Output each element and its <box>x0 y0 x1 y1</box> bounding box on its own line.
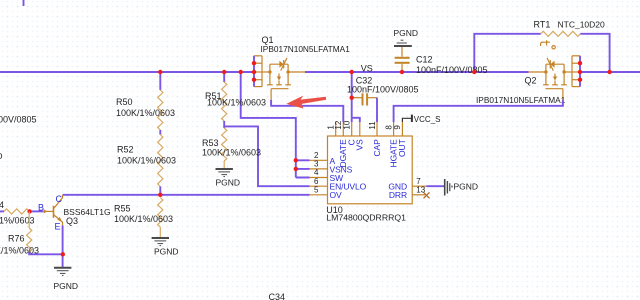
U10 top pin stubs <box>336 122 403 136</box>
transistor Q2 MOSFET body <box>529 64 572 100</box>
junction dot R52/R55 on OV net <box>158 193 162 197</box>
Q1 body arrow <box>277 77 281 81</box>
svg-text:100K/1%/0603: 100K/1%/0603 <box>202 148 261 158</box>
junction dot C12 <box>400 70 404 74</box>
svg-text:B: B <box>38 203 44 213</box>
svg-text:PGND: PGND <box>54 281 79 291</box>
resistor R55 <box>158 198 163 228</box>
junction dot R51 tap <box>222 70 226 74</box>
junction dots Q2 source pins <box>578 61 582 82</box>
U10 top pin numbers <box>327 120 403 129</box>
svg-text:OUT: OUT <box>397 139 407 157</box>
junction dot C32 left <box>350 96 354 100</box>
svg-text:100K/1%/0603: 100K/1%/0603 <box>116 108 175 118</box>
Q2 body diode <box>547 58 555 71</box>
svg-text:100K/1%/0603: 100K/1%/0603 <box>114 214 173 224</box>
svg-text:100nF/100V/0805: 100nF/100V/0805 <box>347 85 419 95</box>
transistor Q2 package bracket <box>572 56 580 87</box>
svg-text:E: E <box>55 222 61 232</box>
U10 top pin names <box>338 139 407 168</box>
U10 left pin numbers <box>314 151 319 194</box>
svg-text:8: 8 <box>384 125 393 130</box>
wire R76 to emitter net <box>29 252 63 254</box>
junction dot RT1 right <box>607 70 611 74</box>
wire sense net A/VSNS/SW from main line <box>241 72 310 178</box>
svg-text:100K/1%/0603: 100K/1%/0603 <box>207 98 266 108</box>
svg-text:100nF/100V/0805: 100nF/100V/0805 <box>0 114 37 124</box>
resistor R51 <box>222 82 227 121</box>
wire main to R51 <box>223 72 225 82</box>
power VCC_S on OUT pin <box>402 115 412 122</box>
RT1 thermistor t-degree mark <box>541 40 556 49</box>
wire R50 to R52 <box>159 130 161 135</box>
svg-text:CAP: CAP <box>372 139 382 157</box>
wire R52 to OV net <box>159 187 161 195</box>
wire GND pin to PGND bar <box>426 185 444 187</box>
junction dot base/R76 <box>27 209 31 213</box>
wire RT1 branch right riser <box>580 34 609 72</box>
svg-text:C12: C12 <box>416 54 433 64</box>
junction dots sense net <box>294 158 298 171</box>
wire R51-R53 junction and EN tap <box>224 121 309 186</box>
svg-text:VS: VS <box>361 63 373 73</box>
svg-text:11: 11 <box>368 121 377 130</box>
svg-text:IPB017N10N5LFATMA1: IPB017N10N5LFATMA1 <box>261 44 351 54</box>
wire Q1 drain to VS and C12, RT1 junction <box>305 71 529 73</box>
svg-text:10: 10 <box>343 120 352 129</box>
junction dots olive Q2 <box>544 70 566 73</box>
svg-text:R76: R76 <box>8 234 25 244</box>
Q3 emitter arrow <box>57 217 62 222</box>
wire HGATE from pin 8 to Q2 gate <box>394 100 563 122</box>
svg-text:RT1: RT1 <box>534 20 551 30</box>
svg-text:R55: R55 <box>114 204 131 214</box>
wire OV net from Q3 collector to pin 5 <box>63 194 310 196</box>
power PGND under R53 <box>216 169 233 177</box>
svg-text:VCC_S: VCC_S <box>414 115 441 124</box>
resistor R50 <box>158 90 163 130</box>
junction dot sense tap <box>239 70 243 74</box>
power PGND earth above C12 <box>394 40 412 46</box>
U10 left pin stubs <box>310 160 328 195</box>
capacitor C32 <box>352 93 377 105</box>
wire Q2 right column to right edge <box>580 71 640 73</box>
svg-text:Q2: Q2 <box>525 76 537 86</box>
wire C32 right to CAP pin <box>376 98 378 122</box>
power PGND under Q3 <box>54 268 71 276</box>
svg-text:PGND: PGND <box>216 178 241 188</box>
svg-text:5: 5 <box>314 185 319 194</box>
U10 right pin stubs <box>412 186 426 195</box>
resistor R76 <box>28 211 30 228</box>
wire DGATE from Q1 gate to pin 12 <box>271 100 343 122</box>
resistor R52 <box>158 135 163 187</box>
power PGND bar (pin 7) <box>445 179 452 196</box>
transistor Q1 MOSFET body <box>262 64 305 100</box>
capacitor C12 <box>395 47 410 72</box>
junction dots Q1 source pins <box>252 61 256 82</box>
junction dots olive Q1 <box>268 70 290 73</box>
resistor R53 <box>222 128 227 161</box>
wire Q3 emitter to PGND <box>62 225 64 267</box>
power PGND under R55 <box>152 238 169 246</box>
wire top-left stub going off-screen <box>23 0 25 6</box>
svg-text:R54: R54 <box>0 200 4 210</box>
transistor Q1 package bracket <box>254 56 262 87</box>
svg-text:13: 13 <box>416 185 425 194</box>
U10 left pin names <box>330 156 367 200</box>
svg-text:PGND: PGND <box>154 247 179 257</box>
svg-text:Q3: Q3 <box>66 216 78 226</box>
svg-text:C: C <box>56 194 63 204</box>
svg-text:LM74800QDRRRQ1: LM74800QDRRRQ1 <box>326 213 406 223</box>
junction dot RT1 left <box>472 70 476 74</box>
wire base net R54 to Q3 <box>30 210 43 212</box>
svg-text:R50: R50 <box>116 97 133 107</box>
wire VS down to C32 and C pin <box>351 72 353 118</box>
svg-text:R53: R53 <box>202 138 219 148</box>
U10 right pin names <box>388 182 407 201</box>
svg-text:100nF/100V/0805: 100nF/100V/0805 <box>416 65 488 75</box>
U10 no-connect X on DRR <box>424 192 430 198</box>
junction dot R50 tap <box>158 70 162 74</box>
svg-text:R52: R52 <box>117 145 134 155</box>
resistor RT1 <box>541 31 581 36</box>
svg-text:C34: C34 <box>269 292 286 300</box>
junction dot VS/C32 tap <box>350 70 354 74</box>
svg-text:PGND: PGND <box>454 182 479 192</box>
U10 right pin numbers <box>416 177 425 195</box>
wire main to R50 <box>159 72 161 90</box>
op-amp U10 body <box>328 136 413 204</box>
annotation red arrow <box>286 96 326 109</box>
svg-text:PGND: PGND <box>0 151 3 161</box>
Q3 base pin arrow <box>44 209 48 213</box>
svg-text:OV: OV <box>330 190 343 200</box>
wire main input net left segment <box>0 71 254 73</box>
svg-text:DRR: DRR <box>389 190 407 200</box>
Q2 body arrow <box>553 77 557 81</box>
svg-text:VS: VS <box>355 139 365 151</box>
wire Q1 source pins column <box>253 56 255 87</box>
wire Q2 source pins column <box>579 56 581 87</box>
wire RT1 branch left riser <box>474 34 541 72</box>
Q1 body diode <box>279 58 287 71</box>
wire C pin branch <box>352 118 360 122</box>
junction dot emitter/R76 <box>61 252 65 256</box>
svg-text:IPB017N10N5LFATMA1: IPB017N10N5LFATMA1 <box>476 95 566 105</box>
svg-text:NTC_10D20: NTC_10D20 <box>558 20 606 30</box>
svg-text:PGND: PGND <box>394 28 419 38</box>
resistor R54 (partial at left edge) <box>0 210 4 212</box>
svg-text:100K/1%/0603: 100K/1%/0603 <box>117 156 176 166</box>
transistor Q3 BSS64LT1G <box>53 206 55 218</box>
svg-text:9: 9 <box>393 125 402 130</box>
wire R53 to ground <box>223 161 225 168</box>
